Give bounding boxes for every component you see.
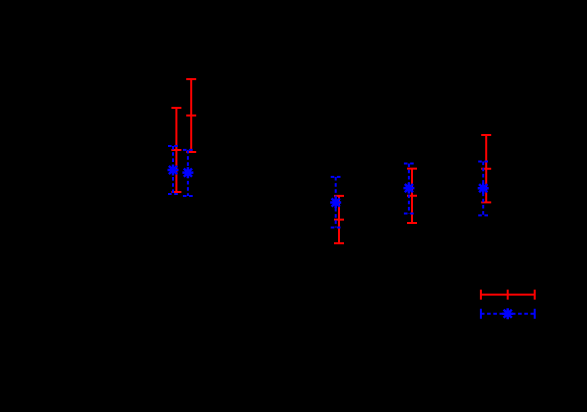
blue asterisk markers [168,165,489,209]
legend blue asterisk marker [502,308,513,319]
blue errorbar point 4 [404,164,414,214]
blue errorbar point 1 [168,146,178,194]
blue errorbar point 5 [478,162,488,216]
blue series: dashed errorbars [168,146,488,228]
red series: solid errorbars with plus markers [171,79,491,243]
blue errorbar point 3 [331,177,341,228]
blue errorbar point 2 [183,150,193,196]
asterisk marker 4 [403,183,414,194]
red errorbar point 2 [186,79,196,152]
legend red sample: horizontal errorbar with plus marker [481,290,535,300]
asterisk marker 3 [330,197,341,208]
red errorbar point 4 [407,169,417,223]
asterisk marker 2 [182,167,193,178]
legend blue sample: dashed horizontal line with end caps [481,309,535,319]
red errorbar point 5 [481,135,491,202]
red errorbar point 1 [171,108,181,192]
red errorbar point 3 [334,196,344,243]
asterisk marker 5 [478,183,489,194]
asterisk marker 1 [168,165,179,176]
